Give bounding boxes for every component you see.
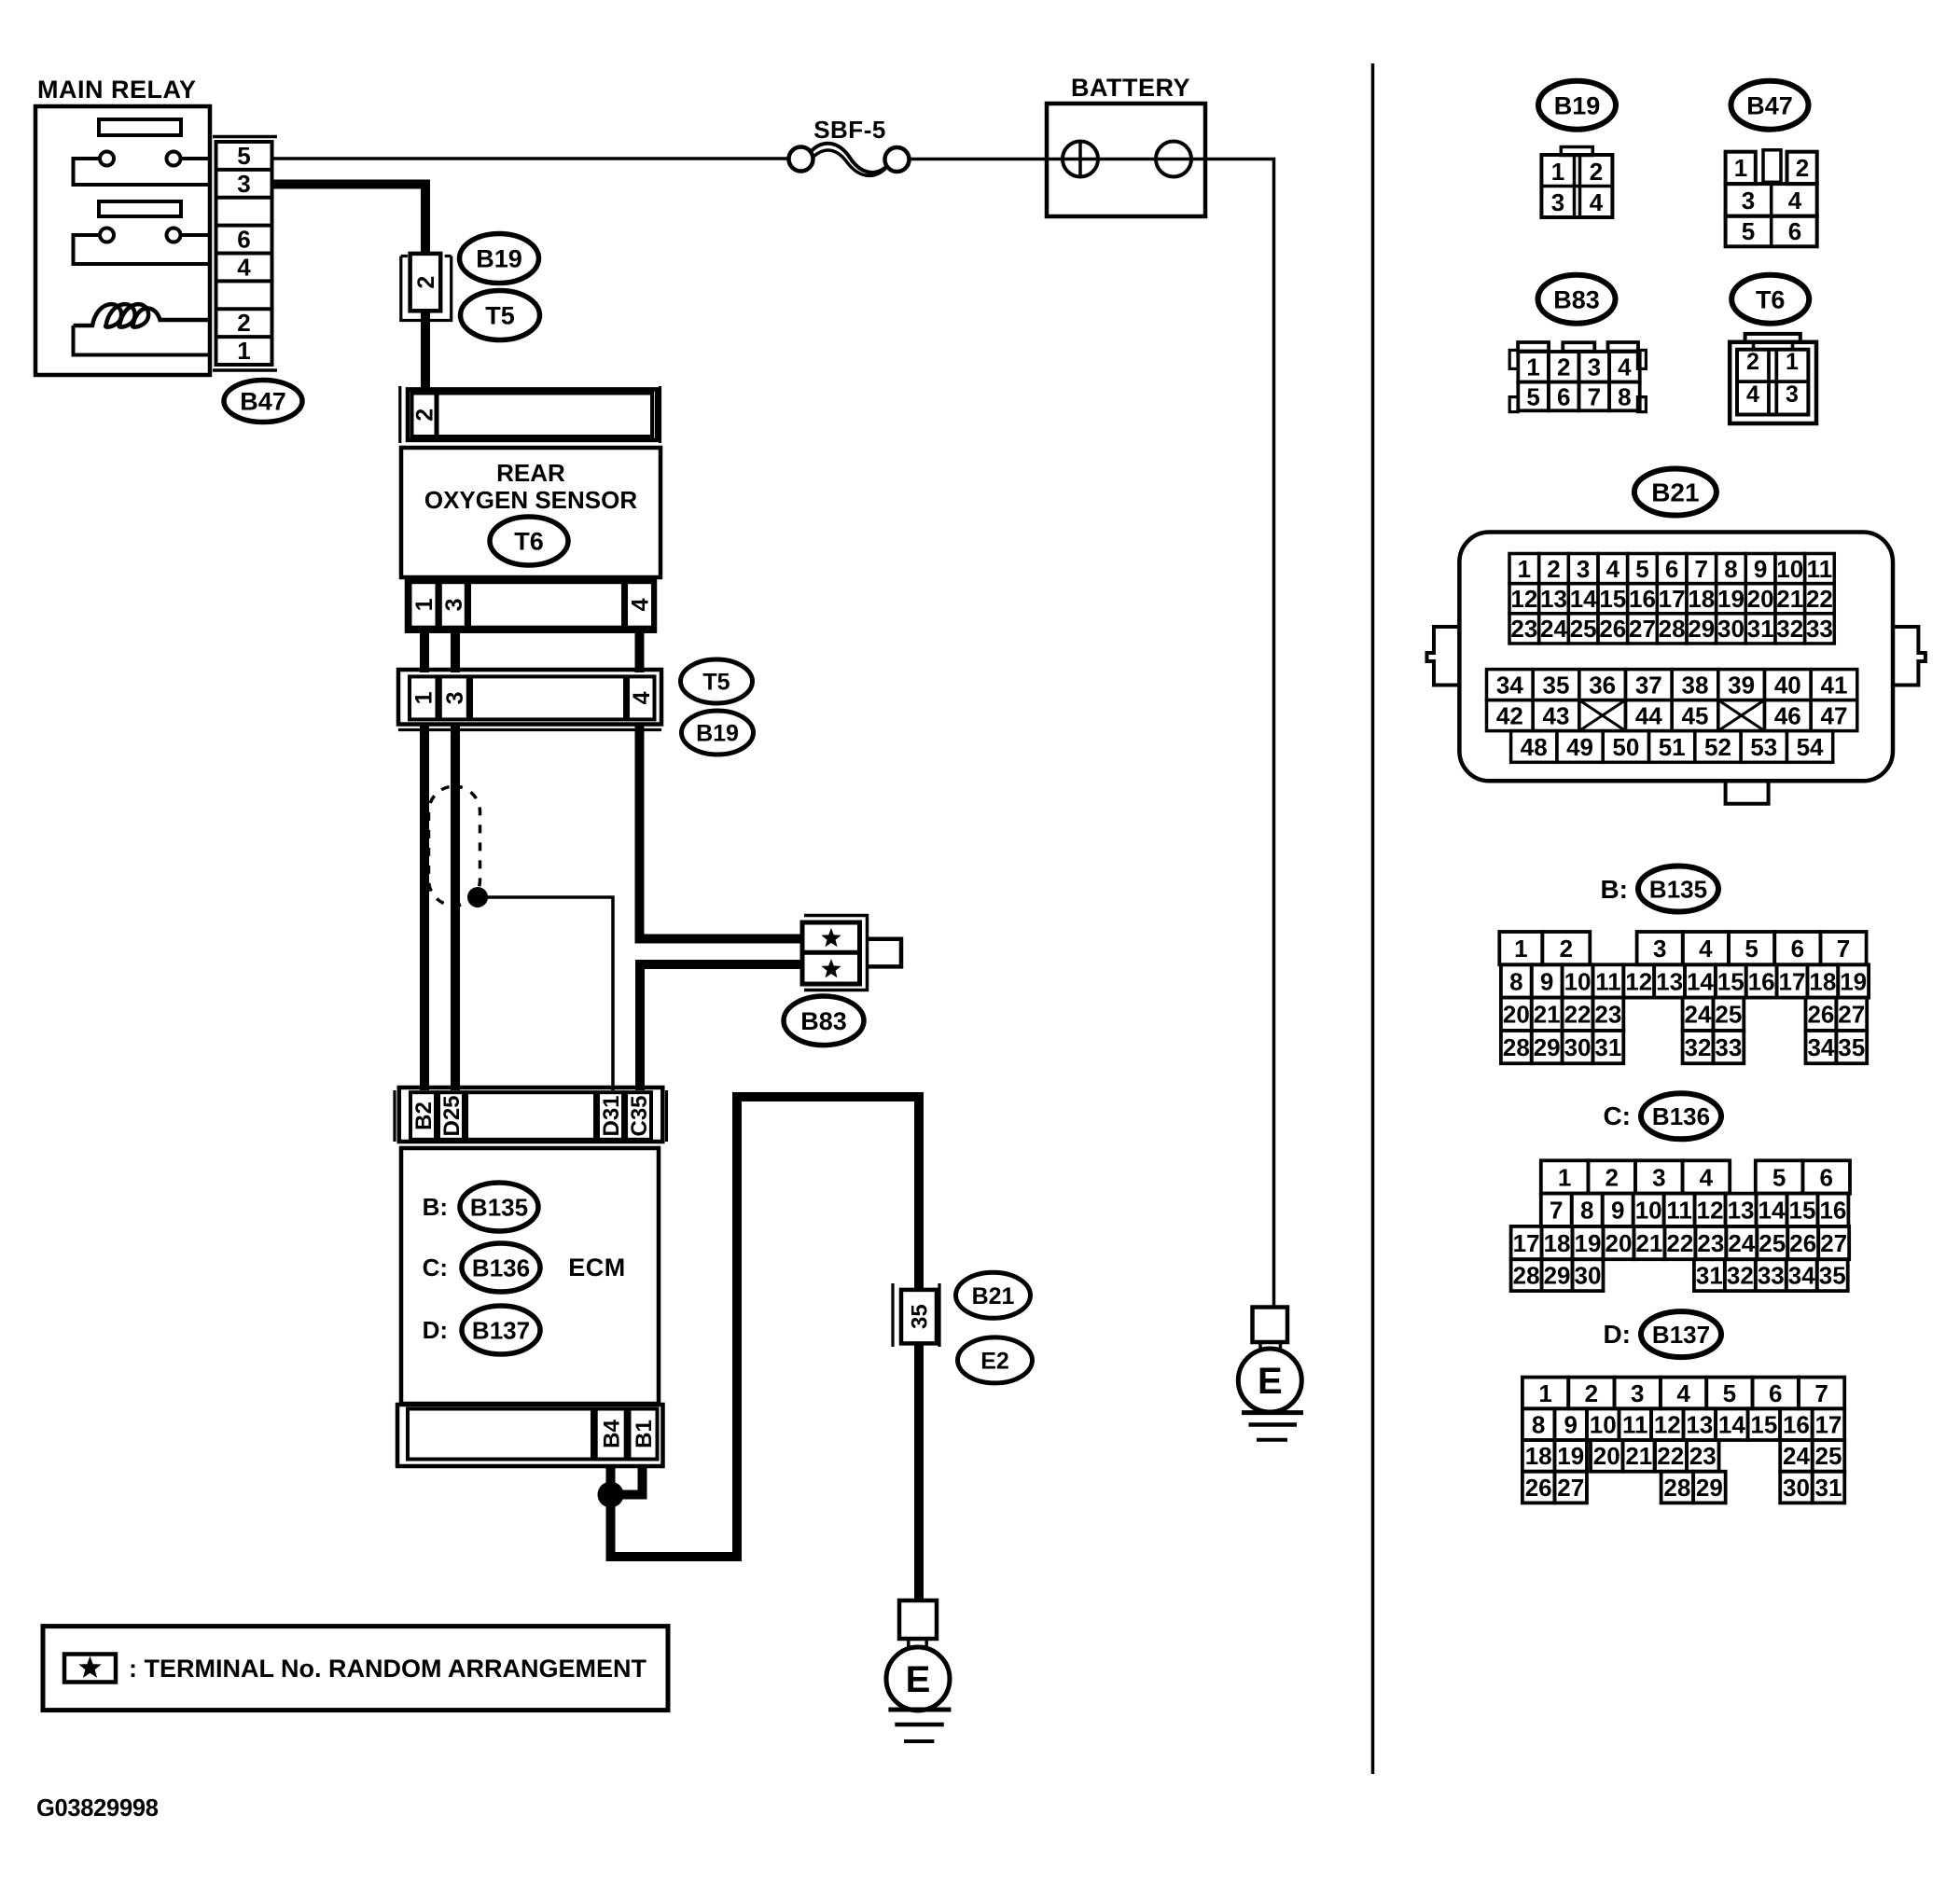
svg-text:39: 39 [1728, 671, 1755, 699]
svg-text:2: 2 [1557, 353, 1570, 381]
svg-text:14: 14 [1758, 1197, 1786, 1225]
svg-text:3: 3 [1577, 555, 1590, 583]
svg-text:2: 2 [1547, 555, 1560, 583]
svg-text:BATTERY: BATTERY [1071, 74, 1190, 102]
ECM bottom connector blank cell [408, 1409, 592, 1460]
svg-text:4: 4 [237, 253, 251, 281]
svg-text:B137: B137 [1652, 1321, 1710, 1349]
svg-text:2: 2 [412, 409, 438, 422]
svg-text:23: 23 [1510, 615, 1537, 643]
svg-text:27: 27 [1557, 1474, 1584, 1502]
svg-text:3: 3 [237, 170, 250, 198]
wire relay coil left lead to pin1 [74, 326, 211, 355]
connector label B83 oval [784, 996, 864, 1046]
relay contact 1 left pole [100, 152, 114, 166]
ECM top connector blank cell [466, 1092, 595, 1140]
svg-text:12: 12 [1510, 585, 1537, 613]
svg-text:36: 36 [1589, 671, 1616, 699]
svg-text:T5: T5 [485, 302, 515, 330]
svg-text:19: 19 [1840, 967, 1867, 995]
svg-text:B137: B137 [472, 1316, 530, 1344]
svg-text:B21: B21 [1651, 478, 1699, 507]
connector label T5 oval [461, 291, 540, 340]
svg-text:REAR: REAR [496, 459, 565, 487]
connector label B19 oval [460, 234, 539, 284]
svg-text:B19: B19 [476, 245, 522, 273]
svg-text:9: 9 [1611, 1197, 1624, 1225]
svg-text:B83: B83 [800, 1007, 847, 1035]
T5 connector pin 4 cell [628, 676, 655, 719]
B83 right tab [868, 939, 902, 967]
svg-text:3: 3 [441, 598, 467, 611]
svg-text:34: 34 [1788, 1262, 1815, 1290]
svg-text:SBF-5: SBF-5 [813, 116, 886, 144]
svg-text:50: 50 [1612, 733, 1639, 761]
svg-text:29: 29 [1544, 1262, 1571, 1290]
wire battery to ground drop [1205, 159, 1274, 1308]
svg-text:6: 6 [1557, 382, 1570, 410]
svg-text:3: 3 [442, 691, 468, 704]
ECM pin D31 cell [598, 1092, 623, 1140]
svg-text:D:: D: [423, 1316, 448, 1344]
svg-text:14: 14 [1570, 585, 1597, 613]
svg-text:7: 7 [1814, 1379, 1828, 1407]
svg-text:29: 29 [1696, 1474, 1723, 1502]
svg-text:30: 30 [1783, 1474, 1810, 1502]
wire relay contact2 armature [74, 235, 211, 264]
svg-text:9: 9 [1540, 967, 1553, 995]
svg-text:C35: C35 [627, 1095, 652, 1136]
svg-text:1: 1 [1538, 1379, 1551, 1407]
shield junction node [467, 887, 488, 907]
svg-text:49: 49 [1566, 733, 1593, 761]
svg-text:28: 28 [1503, 1033, 1530, 1061]
relay contact 2 right pole [167, 229, 181, 242]
wire relay pin3 to connector T5-B19 (thick) [272, 185, 426, 255]
legend star terminal box [64, 1655, 116, 1683]
svg-text:44: 44 [1635, 701, 1662, 729]
T5 connector blank cell [471, 676, 625, 719]
ECM pin B4 cell [596, 1409, 626, 1460]
svg-text:26: 26 [1807, 1001, 1834, 1029]
svg-text:40: 40 [1774, 671, 1801, 699]
svg-text:B:: B: [1600, 875, 1628, 904]
rear oxygen sensor top connector T6 bracket [398, 386, 401, 443]
joint connector B83 shadow outline [804, 916, 868, 990]
shield dashed outline [429, 786, 480, 906]
svg-text:26: 26 [1789, 1229, 1816, 1257]
svg-text:T6: T6 [1756, 285, 1786, 313]
svg-text:B2: B2 [411, 1101, 437, 1130]
connector B19 pinout [1561, 147, 1592, 156]
svg-text:13: 13 [1728, 1197, 1755, 1225]
svg-text:10: 10 [1776, 555, 1803, 583]
svg-text:4: 4 [1606, 555, 1620, 583]
svg-text:8: 8 [1618, 382, 1631, 410]
connector label T5 oval right [681, 659, 753, 703]
svg-text:B136: B136 [1652, 1102, 1710, 1130]
svg-text:11: 11 [1666, 1197, 1692, 1225]
svg-text:16: 16 [1748, 967, 1775, 995]
connector label B19 oval right [682, 711, 754, 755]
svg-text:42: 42 [1496, 701, 1523, 729]
svg-text:E: E [906, 1659, 931, 1700]
svg-text:31: 31 [1696, 1262, 1723, 1290]
rear oxygen sensor bottom connector body [407, 579, 655, 631]
svg-text:25: 25 [1715, 1001, 1742, 1029]
svg-text:10: 10 [1635, 1197, 1662, 1225]
svg-text:8: 8 [1532, 1411, 1545, 1439]
svg-text:11: 11 [1595, 967, 1621, 995]
svg-text:B47: B47 [240, 388, 286, 416]
svg-text:24: 24 [1540, 615, 1567, 643]
battery negative terminal [1156, 142, 1191, 177]
svg-text:35: 35 [1543, 671, 1570, 699]
svg-text:5: 5 [1635, 555, 1648, 583]
svg-text:6: 6 [1769, 1379, 1782, 1407]
svg-text:25: 25 [1570, 615, 1597, 643]
svg-text:11: 11 [1622, 1411, 1648, 1439]
svg-text:21: 21 [1635, 1229, 1662, 1257]
svg-text:12: 12 [1697, 1197, 1724, 1225]
svg-text:5: 5 [1723, 1379, 1736, 1407]
svg-text:18: 18 [1544, 1229, 1571, 1257]
ECM top connector body [399, 1087, 663, 1142]
svg-text:B21: B21 [972, 1283, 1015, 1309]
svg-text:4: 4 [1788, 187, 1802, 215]
svg-text:51: 51 [1659, 733, 1686, 761]
svg-text:1: 1 [411, 598, 438, 611]
svg-text:E: E [1258, 1361, 1283, 1402]
svg-text:25: 25 [1758, 1229, 1786, 1257]
svg-text:19: 19 [1717, 585, 1745, 613]
svg-text:30: 30 [1717, 615, 1745, 643]
svg-text:4: 4 [1746, 381, 1759, 408]
svg-text:29: 29 [1534, 1033, 1561, 1061]
svg-text:26: 26 [1525, 1474, 1552, 1502]
wire relay contact1 to pin5 [181, 157, 211, 160]
svg-text:5: 5 [1772, 1163, 1786, 1191]
B83 terminal * upper [824, 931, 839, 945]
svg-text:35: 35 [1819, 1262, 1846, 1290]
svg-text:22: 22 [1806, 585, 1833, 613]
svg-text:12: 12 [1625, 967, 1652, 995]
svg-text:21: 21 [1625, 1442, 1652, 1470]
wire connector 35 to ground E (thick) [914, 1344, 924, 1601]
svg-text:33: 33 [1806, 615, 1833, 643]
B83 terminal * lower [824, 962, 839, 976]
wire fuse to battery [910, 158, 1048, 161]
svg-text:45: 45 [1682, 701, 1709, 729]
svg-text:16: 16 [1629, 585, 1656, 613]
svg-text:46: 46 [1774, 701, 1801, 729]
svg-text:B:: B: [423, 1193, 448, 1221]
ECM pin C35 cell [626, 1092, 651, 1140]
B21 shell left latch [1427, 627, 1460, 686]
svg-text:25: 25 [1815, 1442, 1842, 1470]
svg-text:18: 18 [1809, 967, 1836, 995]
svg-text:34: 34 [1807, 1033, 1834, 1061]
svg-text:17: 17 [1814, 1411, 1842, 1439]
svg-text:53: 53 [1750, 733, 1777, 761]
B21 pin grid rows 48-54 [1511, 731, 1557, 763]
connector label B47 oval [224, 381, 302, 423]
svg-text:6: 6 [1788, 217, 1801, 245]
svg-text:27: 27 [1838, 1001, 1865, 1029]
svg-text:23: 23 [1689, 1442, 1717, 1470]
svg-text:2: 2 [1746, 349, 1759, 375]
connector label B136 oval in ECM [462, 1243, 540, 1292]
svg-text:34: 34 [1496, 671, 1523, 699]
rear oxygen sensor top connector pin 2 cell [412, 394, 437, 437]
svg-text:: TERMINAL No. RANDOM ARRANGEM: : TERMINAL No. RANDOM ARRANGEMENT [129, 1655, 646, 1683]
svg-text:10: 10 [1564, 967, 1592, 995]
svg-text:31: 31 [1815, 1474, 1842, 1502]
svg-text:22: 22 [1564, 1001, 1592, 1029]
wire connector to rear oxygen sensor pin2 (thick) [421, 312, 430, 393]
svg-text:B135: B135 [470, 1193, 528, 1221]
connector label B137 oval in ECM [462, 1306, 540, 1354]
svg-text:T5: T5 [702, 670, 730, 696]
svg-text:D31: D31 [599, 1095, 624, 1136]
svg-text:7: 7 [1550, 1197, 1563, 1225]
connector label B47 oval panel [1731, 81, 1809, 130]
connector B136 pinout [1541, 1160, 1589, 1193]
wire T5 pin3 to ECM D25 (thick) [451, 725, 460, 1091]
connector label T6 oval panel [1731, 275, 1809, 324]
battery internal bus wire [1047, 158, 1205, 161]
B21 shell bottom tab [1726, 781, 1769, 804]
inline connector 35 bracket [891, 1283, 894, 1347]
svg-text:4: 4 [1676, 1379, 1690, 1407]
svg-text:28: 28 [1663, 1474, 1690, 1502]
svg-text:3: 3 [1742, 187, 1755, 215]
svg-text:32: 32 [1685, 1033, 1712, 1061]
svg-text:18: 18 [1525, 1442, 1552, 1470]
svg-text:1: 1 [1786, 349, 1799, 375]
svg-text:10: 10 [1590, 1411, 1617, 1439]
relay contact bar 1 [99, 119, 181, 135]
connector label E2 oval [958, 1337, 1033, 1383]
wire sensor pin3 to T5 connector (thick) [451, 631, 460, 672]
svg-text:5: 5 [1745, 935, 1758, 963]
ECM pin B1 cell [630, 1409, 658, 1460]
junction node ECM grounds [598, 1482, 624, 1508]
svg-text:14: 14 [1718, 1411, 1745, 1439]
svg-text:4: 4 [1590, 188, 1604, 216]
svg-text:19: 19 [1575, 1229, 1602, 1257]
svg-text:4: 4 [1699, 935, 1713, 963]
svg-text:6: 6 [1665, 555, 1678, 583]
svg-text:13: 13 [1686, 1411, 1713, 1439]
svg-text:1: 1 [411, 691, 438, 704]
svg-text:B83: B83 [1553, 285, 1600, 313]
svg-text:2: 2 [1605, 1163, 1618, 1191]
main relay K1 body [35, 106, 210, 375]
inline connector T5/B19 body [398, 670, 661, 725]
wire relay pin5 to fuse SBF-5 [272, 157, 789, 160]
rear oxygen sensor top connector body [408, 389, 657, 440]
svg-text:12: 12 [1654, 1411, 1681, 1439]
connector label B83 oval panel [1538, 275, 1616, 324]
svg-text:G03829998: G03829998 [36, 1795, 159, 1822]
svg-text:52: 52 [1704, 733, 1731, 761]
svg-text:18: 18 [1688, 585, 1715, 613]
svg-text:48: 48 [1521, 733, 1548, 761]
T5 connector pin 1 cell [410, 676, 438, 719]
sensor bottom connector pin 1 cell [410, 582, 438, 628]
svg-text:D25: D25 [439, 1095, 465, 1136]
svg-text:15: 15 [1717, 967, 1745, 995]
svg-text:16: 16 [1783, 1411, 1810, 1439]
svg-text:33: 33 [1758, 1262, 1785, 1290]
svg-text:8: 8 [1509, 967, 1522, 995]
wire T5 pin1 to ECM B2 (thick) [420, 725, 429, 1091]
svg-text:13: 13 [1540, 585, 1567, 613]
svg-text:1: 1 [1551, 158, 1564, 186]
svg-text:31: 31 [1594, 1033, 1621, 1061]
svg-text:21: 21 [1534, 1001, 1561, 1029]
svg-text:MAIN RELAY: MAIN RELAY [37, 76, 197, 104]
svg-text:6: 6 [1819, 1163, 1832, 1191]
svg-text:20: 20 [1605, 1229, 1632, 1257]
svg-text:B135: B135 [1649, 875, 1707, 903]
svg-text:4: 4 [1700, 1163, 1714, 1191]
svg-text:17: 17 [1659, 585, 1686, 613]
sensor bottom connector pin 3 cell [440, 582, 466, 628]
svg-text:32: 32 [1727, 1262, 1754, 1290]
connector B137 pinout [1522, 1378, 1568, 1409]
svg-text:28: 28 [1659, 615, 1686, 643]
ground E terminal block mid [899, 1600, 937, 1639]
svg-text:24: 24 [1685, 1001, 1712, 1029]
svg-text:9: 9 [1754, 555, 1767, 583]
svg-text:7: 7 [1695, 555, 1708, 583]
svg-text:OXYGEN SENSOR: OXYGEN SENSOR [424, 486, 637, 514]
svg-text:3: 3 [1652, 1163, 1665, 1191]
svg-text:15: 15 [1788, 1197, 1815, 1225]
svg-text:1: 1 [1526, 353, 1539, 381]
connector B47 pin strip on relay [213, 135, 277, 139]
component label T6 oval [490, 517, 568, 565]
svg-text:14: 14 [1687, 967, 1714, 995]
svg-text:2: 2 [413, 276, 439, 289]
svg-text:1: 1 [237, 337, 250, 365]
svg-text:3: 3 [1551, 188, 1564, 216]
rear oxygen sensor top connector blank cell [438, 394, 653, 437]
inline connector terminal 35 cell [901, 1290, 937, 1344]
svg-text:47: 47 [1820, 701, 1847, 729]
battery positive terminal [1063, 142, 1098, 177]
relay contact 2 left pole [100, 229, 114, 242]
svg-text:1: 1 [1514, 935, 1527, 963]
svg-text:17: 17 [1779, 967, 1806, 995]
svg-text:32: 32 [1776, 615, 1803, 643]
svg-text:22: 22 [1666, 1229, 1693, 1257]
svg-text:2: 2 [1560, 935, 1573, 963]
svg-text:3: 3 [1588, 353, 1601, 381]
svg-text:19: 19 [1557, 1442, 1584, 1470]
T5 connector pin 3 cell [440, 676, 468, 719]
svg-text:1: 1 [1558, 1163, 1571, 1191]
svg-text:35: 35 [908, 1304, 933, 1329]
sensor bottom connector pin 4 cell [626, 582, 653, 628]
svg-text:23: 23 [1594, 1001, 1621, 1029]
ECM pin D25 cell [438, 1092, 464, 1140]
svg-text:5: 5 [237, 142, 250, 170]
svg-text:20: 20 [1593, 1442, 1620, 1470]
ground E symbol right [1238, 1349, 1301, 1412]
svg-text:D:: D: [1603, 1320, 1631, 1349]
connector T6 pinout [1745, 334, 1800, 342]
svg-text:30: 30 [1564, 1033, 1592, 1061]
svg-text:24: 24 [1728, 1229, 1755, 1257]
svg-text:1: 1 [1734, 154, 1747, 182]
inline connector terminal 2 cell [410, 254, 441, 311]
connector B135 pinout [1499, 932, 1542, 964]
svg-text:20: 20 [1747, 585, 1774, 613]
panel separator line [1371, 63, 1375, 1774]
svg-text:26: 26 [1599, 615, 1626, 643]
connector B47 pinout [1726, 152, 1756, 184]
svg-text:4: 4 [628, 598, 654, 611]
ECM bottom connector body [397, 1405, 663, 1466]
ECM pin B2 cell [410, 1092, 436, 1140]
svg-text:22: 22 [1657, 1442, 1684, 1470]
wire ECM ground loop to connector 35 (thick) [611, 1097, 920, 1557]
svg-text:31: 31 [1747, 615, 1774, 643]
svg-text:28: 28 [1513, 1262, 1540, 1290]
svg-text:8: 8 [1580, 1197, 1593, 1225]
svg-text:B19: B19 [1554, 91, 1601, 119]
B21 shell right latch [1893, 627, 1925, 686]
svg-text:B136: B136 [472, 1254, 530, 1281]
svg-text:7: 7 [1837, 935, 1850, 963]
connector label B21 oval panel [1634, 469, 1717, 516]
svg-text:8: 8 [1724, 555, 1737, 583]
svg-text:24: 24 [1783, 1442, 1810, 1470]
connector label B21 oval mid [956, 1272, 1031, 1318]
wire sensor pin1 to T5 connector (thick) [420, 631, 429, 672]
svg-text:1: 1 [1518, 555, 1531, 583]
svg-text:20: 20 [1503, 1001, 1530, 1029]
svg-text:38: 38 [1682, 671, 1709, 699]
connector label B19 oval panel [1538, 81, 1616, 130]
svg-text:11: 11 [1807, 555, 1833, 583]
svg-text:16: 16 [1819, 1197, 1846, 1225]
svg-text:B4: B4 [599, 1420, 624, 1448]
svg-text:B1: B1 [632, 1420, 657, 1448]
relay contact 1 right pole [167, 152, 181, 166]
svg-text:54: 54 [1797, 733, 1824, 761]
ground E symbol mid [886, 1647, 950, 1711]
connector label B135 oval in ECM [460, 1183, 538, 1231]
svg-text:C:: C: [1603, 1101, 1631, 1130]
wire relay contact1 armature [74, 159, 211, 185]
svg-text:41: 41 [1820, 671, 1847, 699]
svg-text:C:: C: [423, 1254, 448, 1281]
svg-text:4: 4 [629, 691, 655, 704]
svg-text:30: 30 [1575, 1262, 1602, 1290]
wire T5 pin4 to joint connector B83 (thick) [640, 725, 804, 939]
svg-text:3: 3 [1653, 935, 1666, 963]
svg-text:2: 2 [1590, 158, 1603, 186]
svg-text:15: 15 [1750, 1411, 1777, 1439]
legend box terminal note [43, 1627, 668, 1711]
connector B21 shell [1459, 533, 1893, 782]
svg-text:B47: B47 [1746, 91, 1793, 119]
svg-text:7: 7 [1588, 382, 1601, 410]
